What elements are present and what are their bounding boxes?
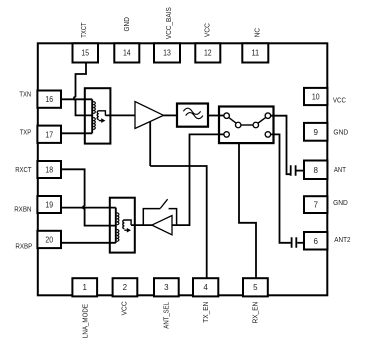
switch S1 box: [219, 107, 274, 144]
wire switch to capacitor C1 ANT: [271, 116, 290, 175]
wire pin17 TXP to balun primary bottom: [61, 132, 92, 134]
svg-text:11: 11: [251, 49, 259, 58]
pin 8 box: [304, 161, 327, 180]
balun T1 primary upper coil bumps: [93, 102, 95, 114]
filter FL1 box: [177, 104, 208, 127]
switch S1 common link: [241, 124, 253, 126]
balun T2 primary lower coil bumps: [117, 230, 119, 242]
svg-text:RX_EN: RX_EN: [250, 302, 259, 324]
svg-text:13: 13: [163, 49, 171, 58]
pin 20 box: [37, 231, 61, 248]
wire pin16 TXN to balun primary top: [61, 98, 92, 100]
pin 2 box: [113, 278, 138, 296]
balun T1 secondary loop: [97, 111, 105, 121]
svg-text:VCC_BAIS: VCC_BAIS: [164, 7, 173, 39]
svg-text:1: 1: [82, 283, 87, 292]
switch S1 terminal top-left: [224, 113, 230, 119]
pin 15 box: [73, 43, 99, 62]
LNA bypass switch right leg: [169, 209, 177, 226]
pin 10 box: [304, 88, 327, 105]
balun T2 secondary arrow: [127, 228, 131, 233]
balun T1 primary winding spine: [91, 99, 93, 133]
pin 14 box: [114, 43, 139, 62]
svg-text:RXBN: RXBN: [14, 204, 31, 213]
svg-text:15: 15: [81, 49, 89, 58]
svg-text:ANT2: ANT2: [334, 235, 350, 244]
pin 6 box: [304, 232, 327, 250]
pin 16 box: [37, 91, 61, 108]
balun T2 primary upper coil bumps: [117, 213, 119, 225]
pin 7 box: [304, 196, 327, 213]
pin 17 box: [37, 126, 61, 143]
switch S1 terminal bottom-left: [224, 132, 230, 138]
svg-text:6: 6: [313, 237, 318, 246]
wire filter to switch pole: [208, 115, 224, 117]
wire pin18 RXCT to RX balun center tap: [61, 169, 116, 225]
svg-text:GND: GND: [333, 128, 348, 137]
svg-text:ANT_SEL: ANT_SEL: [162, 302, 171, 329]
op-amp PA power amplifier: [135, 102, 164, 129]
balun T2 box: [110, 198, 135, 253]
balun T1 secondary arrow: [101, 118, 105, 123]
balun T1 primary lower coil bumps: [93, 118, 95, 130]
wire balun T1 output to amplifier input: [105, 114, 135, 116]
wire switch RX throw to LNA input: [172, 134, 224, 225]
wire PA output to filter: [164, 114, 178, 116]
switch S1 arm TX: [229, 118, 236, 124]
pin 12 box: [195, 43, 220, 62]
svg-text:NC: NC: [252, 28, 261, 38]
switch S1 terminal bottom-right: [265, 132, 271, 138]
wire pin15 TXCT to TX balun center tap: [74, 63, 92, 116]
wire balun T2 to LNA output: [131, 224, 152, 226]
balun T2 primary winding spine: [115, 208, 117, 243]
capacitor C2 plates: [292, 237, 297, 248]
switch S1 terminal mid-left: [235, 122, 241, 128]
wire TX_EN horizontal run: [150, 165, 207, 167]
svg-text:12: 12: [204, 49, 212, 58]
svg-text:10: 10: [312, 93, 320, 102]
pin 11 box: [242, 43, 268, 62]
switch S1 terminal mid-right: [253, 122, 258, 128]
LNA bypass switch arm: [160, 199, 167, 208]
pin 4 box: [193, 278, 218, 296]
pin 18 box: [37, 161, 61, 178]
svg-text:7: 7: [313, 201, 318, 210]
svg-text:16: 16: [45, 95, 53, 104]
wire capacitor C2 to pin6 ANT2: [297, 242, 304, 244]
balun T1 box: [85, 88, 111, 143]
LNA bypass switch left leg: [143, 209, 160, 226]
pin 3 box: [154, 278, 179, 296]
wire pin20 RXBP to RX balun primary bottom: [61, 242, 116, 244]
svg-text:RXCT: RXCT: [15, 165, 32, 174]
svg-text:LNA_MODE: LNA_MODE: [81, 304, 90, 338]
filter FL1 wave symbol: [183, 108, 203, 118]
svg-text:TXCT: TXCT: [79, 22, 88, 38]
wire PA enable from node TX_EN: [149, 122, 151, 166]
wire pin4 TX_EN vertical: [206, 165, 208, 278]
svg-text:17: 17: [45, 130, 53, 139]
pin 1 box: [72, 278, 97, 296]
chip outline U1: [38, 43, 328, 295]
wire capacitor C1 to pin8 ANT: [297, 170, 305, 172]
svg-text:TX_EN: TX_EN: [201, 302, 210, 323]
pin 13 box: [154, 43, 180, 62]
svg-text:5: 5: [253, 283, 258, 292]
svg-text:8: 8: [313, 166, 318, 175]
wire pin19 RXBN to RX balun primary top: [61, 207, 116, 209]
svg-text:2: 2: [123, 283, 128, 292]
pin 19 box: [37, 196, 61, 213]
svg-text:VCC: VCC: [120, 301, 129, 316]
svg-text:19: 19: [45, 201, 53, 210]
switch S1 arm ANT: [258, 118, 265, 123]
svg-text:4: 4: [203, 283, 208, 292]
svg-text:GND: GND: [122, 17, 131, 32]
svg-text:RXBP: RXBP: [15, 241, 32, 250]
balun T2 secondary loop: [123, 220, 131, 230]
svg-text:GND: GND: [333, 198, 348, 207]
svg-text:TXP: TXP: [20, 128, 32, 137]
wire pin5 RX_EN to switch: [239, 143, 256, 278]
svg-text:20: 20: [45, 236, 53, 245]
svg-text:9: 9: [313, 128, 318, 137]
pin 9 box: [304, 123, 327, 141]
switch S1 terminal top-right: [265, 113, 271, 119]
capacitor C1 plates: [291, 165, 296, 176]
svg-text:14: 14: [123, 49, 131, 58]
pin 5 box: [243, 278, 268, 296]
op-amp LNA low noise amplifier: [152, 216, 172, 235]
svg-text:18: 18: [45, 166, 53, 175]
svg-text:3: 3: [164, 283, 169, 292]
svg-text:VCC: VCC: [203, 23, 212, 38]
svg-text:TXN: TXN: [19, 90, 31, 99]
svg-text:VCC: VCC: [333, 96, 346, 105]
svg-text:ANT: ANT: [334, 165, 346, 174]
wire switch to capacitor C2 ANT2: [271, 134, 291, 242]
